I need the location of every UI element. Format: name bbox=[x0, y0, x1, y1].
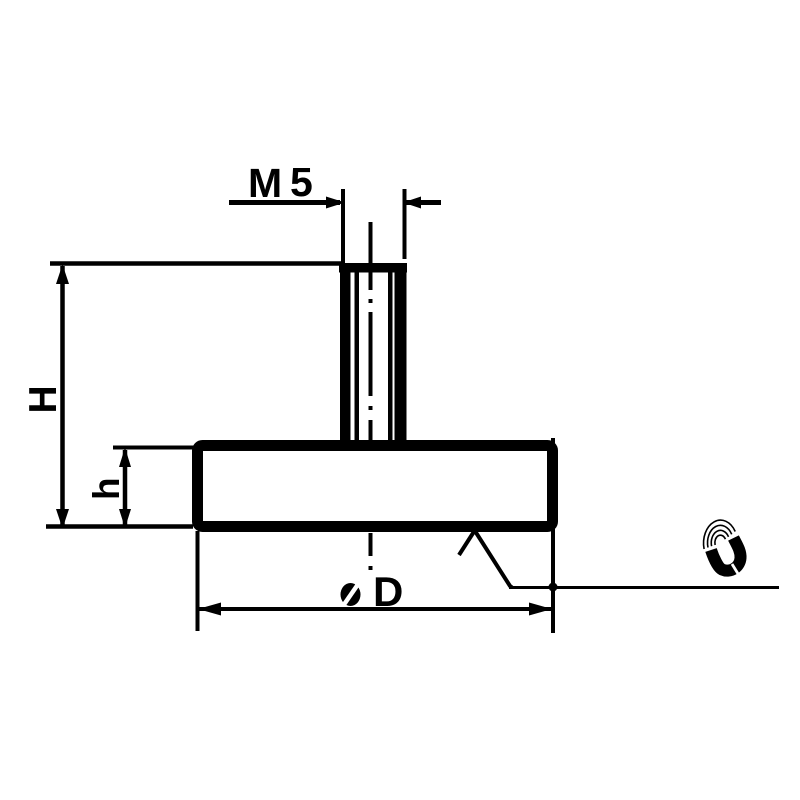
svg-text:H: H bbox=[22, 385, 65, 413]
svg-text:M: M bbox=[248, 160, 282, 206]
svg-text:h: h bbox=[86, 477, 127, 500]
svg-text:5: 5 bbox=[290, 159, 313, 205]
svg-text:D: D bbox=[373, 568, 403, 615]
